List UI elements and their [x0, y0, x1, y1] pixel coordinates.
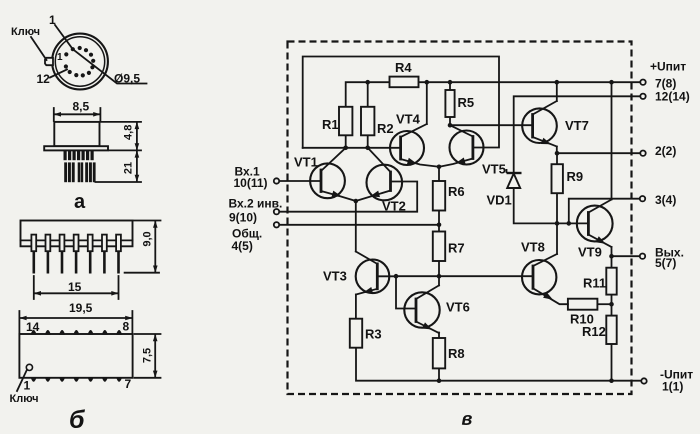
wire R5 node to VT7 base	[450, 124, 533, 126]
pin 12 leader line	[50, 70, 67, 78]
resistor R4	[390, 77, 419, 88]
svg-text:1: 1	[49, 13, 56, 27]
resistor R5	[445, 90, 454, 117]
svg-text:1: 1	[57, 52, 63, 63]
svg-text:R4: R4	[395, 60, 412, 75]
transistor VT2	[356, 148, 402, 201]
svg-text:VT5: VT5	[482, 162, 506, 177]
wire R6 R7 chain	[438, 167, 440, 286]
DIP side view body	[21, 221, 133, 247]
pin 1 leader line	[55, 25, 73, 49]
can flange	[44, 146, 108, 150]
resistor R11	[606, 268, 616, 295]
dimension 21	[95, 150, 141, 182]
svg-text:8: 8	[123, 320, 130, 334]
svg-text:VD1: VD1	[487, 193, 512, 208]
svg-text:14: 14	[26, 320, 40, 334]
svg-text:R11: R11	[583, 276, 606, 291]
wire input 1 to VT1 base	[279, 180, 321, 182]
svg-text:R1: R1	[322, 117, 339, 132]
svg-text:3(4): 3(4)	[655, 193, 676, 207]
DIP top view pin bumps top	[31, 330, 123, 335]
svg-text:10(11): 10(11)	[234, 176, 268, 190]
resistor R7	[433, 232, 445, 262]
svg-text:1: 1	[24, 379, 31, 393]
key leader line	[31, 37, 47, 60]
wire VT3 base node runs	[396, 276, 533, 308]
wire VT3 emitter to R3	[355, 295, 357, 319]
transistor VT9	[577, 200, 613, 248]
resistor R10	[568, 299, 598, 310]
dimension 8,5	[54, 108, 101, 121]
dimension 15	[34, 276, 119, 299]
wire base node VT4 / R1 R2 bottoms	[303, 135, 401, 148]
svg-text:VT2: VT2	[382, 199, 406, 214]
svg-text:в: в	[462, 409, 473, 429]
dimension 9,0	[125, 221, 161, 273]
wire R12 leads	[611, 304, 613, 381]
can package top view outer circle	[52, 34, 108, 90]
wire cross-coupling loop to VT5 base	[303, 57, 499, 148]
svg-text:12(14): 12(14)	[655, 90, 690, 104]
wire output node to pin 5(7)	[612, 247, 643, 256]
wire R10 right lead	[597, 303, 611, 305]
svg-text:12: 12	[37, 72, 51, 86]
wire VT7 collector vertical	[556, 82, 558, 101]
svg-text:1(1): 1(1)	[662, 380, 683, 394]
svg-text:8,5: 8,5	[73, 100, 90, 114]
DIP top view body	[19, 334, 132, 378]
resistor R12	[606, 316, 616, 344]
wire pin 3(4) to VT9 base node	[569, 199, 643, 224]
svg-text:21: 21	[123, 162, 135, 174]
svg-text:VT1: VT1	[294, 155, 318, 170]
wire VD1 anode to VT9 base	[514, 188, 589, 223]
resistor R2	[361, 107, 374, 136]
svg-text:+Uпит: +Uпит	[650, 60, 686, 74]
svg-text:Ключ: Ключ	[11, 26, 40, 38]
wire VT4 collector vertical	[426, 82, 428, 124]
wire VT9 collector vertical	[611, 82, 613, 199]
svg-text:R8: R8	[448, 346, 465, 361]
svg-text:VT3: VT3	[323, 269, 347, 284]
transistor VT6	[404, 285, 439, 333]
wire +U rail	[346, 82, 643, 107]
resistor R1	[339, 107, 352, 136]
svg-text:19,5: 19,5	[69, 301, 93, 315]
terminal 3(4)	[640, 196, 645, 201]
dimension 4,8	[101, 122, 141, 150]
resistor R9	[552, 164, 563, 193]
terminal Вх.1 10(11)	[274, 178, 279, 183]
svg-text:15: 15	[68, 280, 82, 294]
transistor VT8	[522, 254, 568, 304]
key circle (DIP)	[26, 364, 32, 370]
zener diode VD1	[507, 169, 522, 188]
transistor VT3	[356, 252, 396, 295]
terminal Общ 4(5)	[274, 222, 279, 227]
svg-text:Ø9,5: Ø9,5	[114, 72, 140, 86]
svg-text:R2: R2	[377, 121, 394, 136]
DIP side view seam line	[21, 239, 133, 241]
svg-text:VT4: VT4	[396, 112, 421, 127]
terminal 12(14)	[640, 94, 645, 99]
wire R2 top lead	[367, 82, 369, 107]
svg-text:R6: R6	[448, 184, 465, 199]
transistor VT1	[310, 148, 356, 201]
wire R5 leads	[449, 82, 451, 125]
svg-text:9,0: 9,0	[142, 231, 154, 246]
terminal Вх.2 9(10)	[274, 209, 279, 214]
svg-text:R12: R12	[582, 324, 606, 339]
pin dots ring	[64, 46, 95, 78]
svg-text:R7: R7	[448, 241, 465, 256]
transistor VT4	[390, 124, 439, 167]
svg-text:а: а	[74, 191, 86, 213]
dimension 7,5	[135, 334, 161, 378]
svg-text:R3: R3	[365, 327, 382, 342]
key leader (DIP)	[17, 370, 27, 391]
transistor VT5	[439, 125, 484, 167]
svg-text:7(8): 7(8)	[655, 77, 676, 91]
resistor R6	[433, 181, 445, 211]
transistor VT7	[522, 101, 557, 147]
wire pin 12(14) to VD1	[514, 96, 643, 173]
svg-text:VT6: VT6	[446, 300, 470, 315]
key tab on can	[45, 58, 53, 65]
svg-text:2(2): 2(2)	[655, 144, 676, 158]
svg-text:VT7: VT7	[565, 118, 589, 133]
svg-text:R5: R5	[458, 95, 475, 110]
svg-text:7,5: 7,5	[142, 348, 154, 363]
svg-text:VT9: VT9	[578, 245, 602, 260]
wire R11 leads	[611, 256, 613, 304]
resistor R8	[433, 338, 445, 368]
dimension 19,5	[19, 311, 132, 333]
wire VT6 emitter to R8 and R8 bottom	[438, 333, 440, 381]
can leads upper band	[64, 151, 94, 161]
svg-text:VT8: VT8	[521, 240, 545, 255]
svg-text:7: 7	[125, 377, 132, 391]
wire common emitters to VT3	[355, 201, 357, 252]
wire input 2 to VT2 base	[279, 182, 417, 212]
svg-text:Вх.2 инв.: Вх.2 инв.	[229, 197, 283, 211]
wire R3 bottom and -U rail	[356, 348, 644, 381]
terminal +U 7(8)	[640, 80, 645, 85]
DIP pin shoulders	[31, 235, 121, 252]
svg-text:4(5): 4(5)	[232, 239, 253, 253]
can package top view inner circle	[55, 37, 104, 86]
can leads lower band	[64, 162, 95, 182]
svg-text:б: б	[69, 406, 86, 434]
svg-text:R9: R9	[567, 169, 584, 184]
terminal Вых 5(7)	[640, 254, 645, 259]
svg-text:9(10): 9(10)	[229, 211, 257, 225]
DIP leads	[34, 251, 119, 273]
svg-text:Ключ: Ключ	[10, 393, 39, 405]
svg-text:5(7): 5(7)	[655, 256, 676, 270]
terminal -U 1(1)	[641, 378, 646, 383]
can body side view	[54, 122, 99, 146]
wire common to R6-R7 node	[279, 224, 439, 226]
resistor R3	[350, 319, 362, 348]
terminal 2(2)	[640, 151, 645, 156]
dashed IC boundary	[288, 42, 632, 395]
wire R9 leads	[556, 153, 558, 223]
DIP top view pin bumps bottom	[31, 377, 123, 382]
diameter leader line	[73, 49, 147, 83]
wire VT8 collector vertical	[556, 223, 558, 254]
wire VT7 emitter node to pin 2(2)	[557, 147, 643, 154]
svg-text:4,8: 4,8	[123, 125, 135, 140]
